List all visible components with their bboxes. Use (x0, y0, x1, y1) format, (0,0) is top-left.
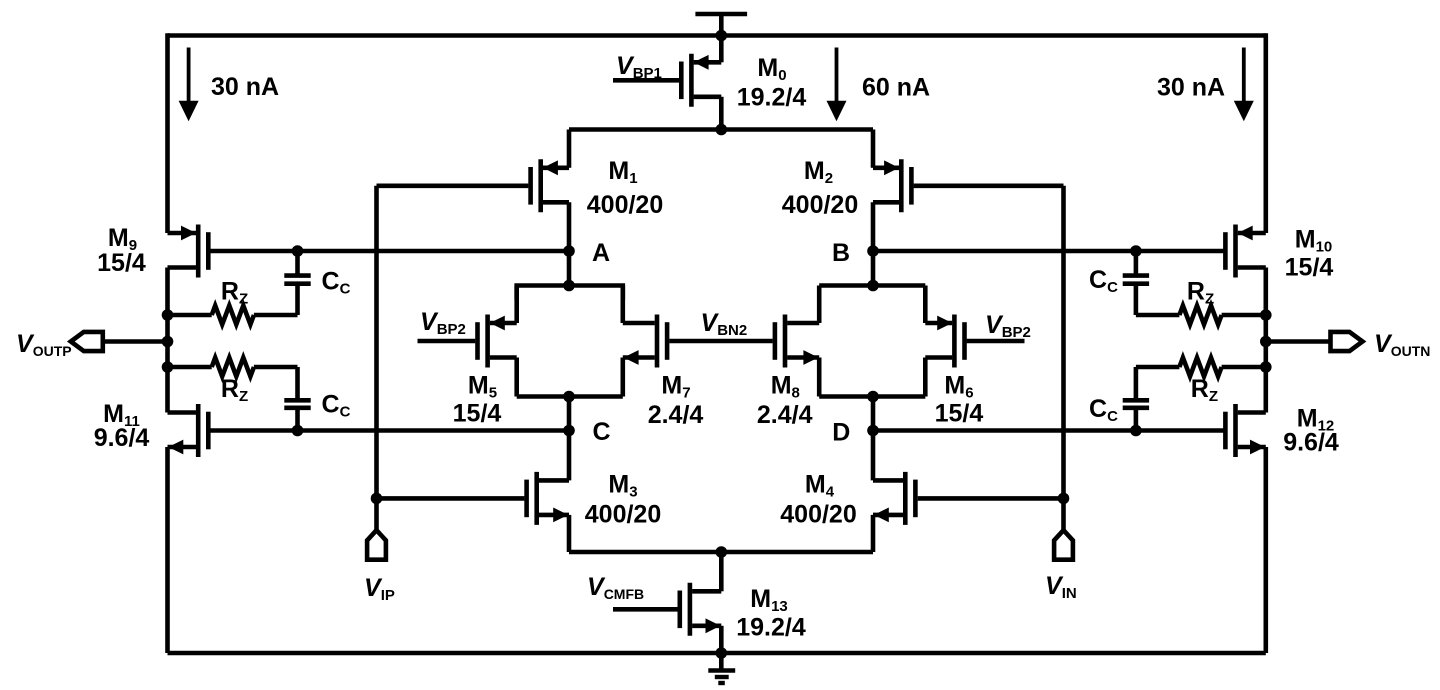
wire M1 drain stub (567, 202, 572, 251)
label M12 size (1283, 429, 1339, 457)
wire VOUTP lead (103, 339, 168, 344)
label M3 size (585, 501, 661, 529)
svg-text:400/20: 400/20 (585, 501, 661, 529)
label 60 nA (862, 74, 930, 102)
wire M3 drain stub (567, 431, 572, 481)
label M11 (103, 400, 140, 430)
wire M3 source stub (567, 515, 572, 552)
svg-text:M8: M8 (771, 372, 800, 402)
node diamond-A bottom (563, 391, 575, 403)
svg-text:VIN: VIN (1045, 572, 1077, 602)
label M1 size (587, 191, 663, 219)
wire CC to node-A line (295, 251, 300, 276)
transistor M3 (527, 472, 569, 525)
resistor RZ right-lower (1136, 358, 1266, 377)
capacitor CC right-upper (1123, 276, 1149, 284)
node VIN junction (1058, 493, 1070, 505)
node bottom-rail junction (716, 647, 728, 659)
label RZ left-lower (221, 375, 248, 405)
svg-text:400/20: 400/20 (587, 191, 663, 219)
wire M4 source stub (871, 515, 876, 552)
svg-text:RZ: RZ (1191, 375, 1218, 405)
label RZ left-upper (221, 278, 248, 308)
wire M0 drain stub (719, 97, 724, 130)
svg-text:19.2/4: 19.2/4 (737, 84, 807, 112)
svg-text:9.6/4: 9.6/4 (1283, 429, 1339, 457)
wire M13 source stub (719, 626, 724, 653)
wire M6 gate lead (967, 339, 1025, 344)
svg-text:CC: CC (322, 268, 351, 298)
label M7 size (648, 401, 704, 429)
wire M4 gate to VIN (918, 496, 1064, 501)
node A (563, 245, 575, 257)
wire diamond-A legs (517, 286, 623, 324)
label node B (832, 239, 850, 267)
svg-text:15/4: 15/4 (1285, 254, 1334, 282)
label M12 (1297, 405, 1335, 435)
label VBP2 left (420, 308, 466, 338)
svg-text:RZ: RZ (1187, 278, 1214, 308)
label node C (592, 418, 610, 446)
label M2 size (782, 191, 858, 219)
label M9 size (97, 249, 146, 277)
wire M4 drain stub (871, 431, 876, 481)
wire CC to node-C line (295, 408, 300, 431)
svg-text:M3: M3 (608, 471, 637, 501)
svg-text:VBP2: VBP2 (985, 311, 1031, 341)
label M6 (944, 372, 973, 402)
node left Rz lower (162, 361, 174, 373)
wire M0 gate lead (613, 78, 681, 83)
wire M1-M2 source rail (569, 127, 873, 132)
transistor M10 (1225, 225, 1265, 278)
label M0 size (737, 84, 807, 112)
label M8 size (757, 401, 813, 429)
label VOUTN (1374, 330, 1430, 359)
transistor M5 (478, 315, 517, 368)
svg-text:2.4/4: 2.4/4 (757, 401, 813, 429)
label VIN (1045, 572, 1077, 602)
current arrow 30 nA left (179, 48, 199, 122)
svg-text:15/4: 15/4 (453, 400, 502, 428)
svg-text:19.2/4: 19.2/4 (736, 614, 806, 642)
label VIP (364, 574, 395, 604)
wire A to diamond (567, 251, 572, 286)
svg-text:B: B (832, 239, 850, 267)
wire right bus upper (1264, 33, 1269, 233)
resistor RZ left-lower (168, 358, 298, 377)
node Cc tap left-lower (292, 425, 304, 437)
svg-text:M13: M13 (750, 585, 788, 615)
label M9 (108, 224, 137, 254)
svg-text:9.6/4: 9.6/4 (94, 424, 150, 452)
label M2 (804, 157, 833, 187)
wire diamond-A top rail (517, 286, 623, 300)
terminal VOUTN (1331, 332, 1363, 351)
wire CC to node-D line (1134, 408, 1139, 431)
node top-rail junction (716, 30, 728, 42)
node Cc tap left-upper (292, 245, 304, 257)
svg-text:30 nA: 30 nA (1157, 74, 1225, 102)
svg-text:M10: M10 (1295, 226, 1333, 256)
label M13 size (736, 614, 806, 642)
wire diamond-B legs (819, 286, 925, 324)
label M8 (771, 372, 800, 402)
svg-text:15/4: 15/4 (935, 400, 984, 428)
transistor M11 (168, 404, 209, 457)
ground (708, 653, 735, 683)
wire M1 gate to VIP (377, 184, 529, 189)
svg-text:M0: M0 (757, 54, 786, 84)
label CC right-upper (1089, 266, 1118, 296)
transistor M12 (1225, 404, 1265, 457)
capacitor CC right-lower (1123, 400, 1149, 408)
svg-text:VOUTP: VOUTP (16, 330, 72, 359)
svg-text:M2: M2 (804, 157, 833, 187)
wire M13 drain stub (719, 552, 724, 591)
wire diamond-B top rail (819, 283, 925, 288)
node diamond-B top (867, 280, 879, 292)
label M3 (608, 471, 637, 501)
terminal VIN (1054, 530, 1073, 560)
transistor M1 (531, 159, 569, 212)
wire right bus middle (1264, 268, 1269, 413)
power supply symbol (695, 14, 747, 36)
wire M2 source stub (871, 130, 876, 168)
resistor RZ right-upper (1136, 306, 1266, 325)
node right Rz upper (1260, 309, 1272, 321)
wire node-A line (M9 gate) (211, 249, 570, 254)
transistor M13 (680, 583, 722, 636)
node Cc tap right-lower (1130, 425, 1142, 437)
label M1 (608, 157, 637, 187)
wire M0 source stub (719, 36, 724, 63)
label VCMFB (587, 573, 644, 602)
svg-text:M1: M1 (608, 157, 637, 187)
wire diamond to node D (871, 397, 876, 431)
node tail (716, 546, 728, 558)
label M4 size (780, 501, 856, 529)
capacitor CC left-lower (284, 400, 310, 408)
transistor M6 (925, 315, 964, 368)
terminal VOUTP (71, 332, 103, 351)
svg-text:VBP2: VBP2 (420, 308, 466, 338)
node VOUTP (162, 336, 174, 348)
label M6 size (935, 400, 984, 428)
wire M13 gate lead (613, 607, 678, 612)
node B (867, 245, 879, 257)
svg-text:RZ: RZ (221, 278, 248, 308)
wire diamond-B bottom rail (819, 394, 925, 399)
svg-text:60 nA: 60 nA (862, 74, 930, 102)
wire B to diamond (871, 251, 876, 286)
wire M5 gate lead (418, 339, 476, 344)
svg-text:CC: CC (1089, 395, 1118, 425)
node C (563, 425, 575, 437)
label RZ right-upper (1187, 278, 1214, 308)
wire diamond-A bottom legs (517, 358, 623, 397)
label VBN2 (701, 309, 748, 339)
label M4 (805, 471, 835, 501)
wire top rail (168, 33, 1266, 38)
label CC right-lower (1089, 395, 1118, 425)
label VBP1 (616, 52, 662, 82)
wire left bus middle (165, 268, 170, 413)
wire CC to node-B line (1134, 251, 1139, 276)
current arrow 30 nA right (1234, 48, 1254, 122)
svg-text:M6: M6 (944, 372, 973, 402)
wire RZ-CC link left-upper (295, 284, 300, 315)
label node A (592, 239, 610, 267)
wire diamond-B bottom legs (819, 358, 925, 397)
wire diamond-A bottom rail (517, 394, 623, 399)
wire node-C line (M11 gate) (211, 428, 570, 433)
label VOUTP (16, 330, 72, 359)
transistor M8 (775, 315, 819, 368)
label M5 size (453, 400, 502, 428)
transistor M7 (623, 315, 667, 368)
svg-text:RZ: RZ (221, 375, 248, 405)
label node D (832, 419, 850, 447)
label M7 (661, 372, 690, 402)
label M11 size (94, 424, 150, 452)
node right Rz lower (1260, 361, 1272, 373)
wire node-D line (M12 gate) (873, 428, 1224, 433)
wire right bus lower (1264, 447, 1269, 653)
wire VOUTN lead (1266, 339, 1331, 344)
svg-text:30 nA: 30 nA (211, 73, 279, 101)
wire RZ-CC link left-lower (295, 367, 300, 400)
wire node-B line (M10 gate) (873, 249, 1224, 254)
label RZ right-lower (1191, 375, 1218, 405)
label VBP2 right (985, 311, 1031, 341)
label M5 (468, 372, 497, 402)
wire M2 drain stub (871, 202, 876, 251)
svg-text:M5: M5 (468, 372, 497, 402)
svg-text:400/20: 400/20 (782, 191, 858, 219)
wire left bus upper (165, 33, 170, 233)
svg-text:2.4/4: 2.4/4 (648, 401, 704, 429)
wire left bus lower (165, 447, 170, 653)
node M0 drain (716, 124, 728, 136)
label M13 (750, 585, 788, 615)
svg-text:VBP1: VBP1 (616, 52, 662, 82)
wire M1 source stub (567, 130, 572, 168)
terminal VIP (367, 530, 386, 560)
label M10 (1295, 226, 1333, 256)
label CC left-upper (322, 268, 351, 298)
svg-text:CC: CC (322, 391, 351, 421)
wire tail rail (569, 550, 873, 555)
wire diamond to node C (567, 397, 572, 431)
wire VBN2 line (669, 339, 772, 344)
transistor M9 (168, 225, 209, 278)
label M0 (757, 54, 786, 84)
svg-text:VBN2: VBN2 (701, 309, 748, 339)
wire M3 gate to VIP (377, 496, 525, 501)
svg-text:M4: M4 (805, 471, 835, 501)
label M10 size (1285, 254, 1334, 282)
svg-text:M7: M7 (661, 372, 690, 402)
transistor M2 (873, 159, 911, 212)
transistor M4 (873, 472, 915, 525)
svg-text:15/4: 15/4 (97, 249, 146, 277)
wire CC-RZ link right-upper (1134, 284, 1139, 315)
capacitor CC left-upper (284, 276, 310, 284)
node VOUTN (1260, 336, 1272, 348)
svg-text:CC: CC (1089, 266, 1118, 296)
transistor M0 (681, 54, 721, 107)
svg-text:VOUTN: VOUTN (1374, 330, 1430, 359)
svg-text:C: C (592, 418, 610, 446)
current arrow 60 nA (827, 48, 847, 122)
node VIP junction (371, 493, 383, 505)
node diamond-A top (563, 280, 575, 292)
wire M2 gate to VIN (914, 184, 1064, 189)
resistor RZ left-upper (168, 306, 298, 325)
node Cc tap right-upper (1130, 245, 1142, 257)
wire bottom rail (168, 651, 1266, 656)
node D (867, 425, 879, 437)
label CC left-lower (322, 391, 351, 421)
wire VIN vertical (1061, 186, 1066, 530)
wire CC-RZ link right-lower (1134, 367, 1139, 400)
svg-text:VIP: VIP (364, 574, 395, 604)
label 30 nA right (1157, 74, 1225, 102)
wire VIP vertical (374, 186, 379, 530)
svg-text:D: D (832, 419, 850, 447)
svg-text:VCMFB: VCMFB (587, 573, 644, 602)
node left Rz upper (162, 309, 174, 321)
svg-text:400/20: 400/20 (780, 501, 856, 529)
node diamond-B bottom (867, 391, 879, 403)
svg-text:A: A (592, 239, 610, 267)
label 30 nA left (211, 73, 279, 101)
